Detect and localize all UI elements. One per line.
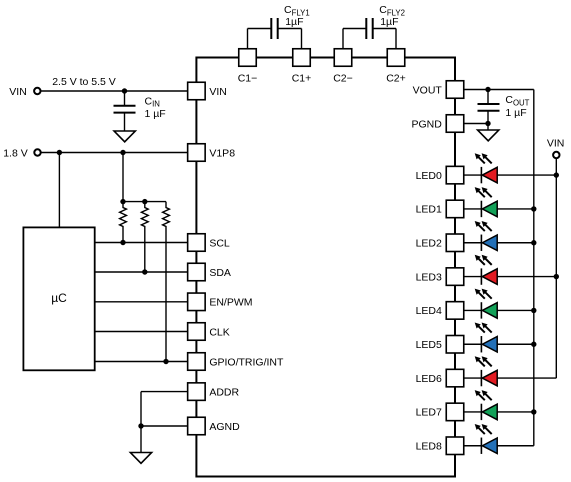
- svg-text:VIN: VIN: [9, 86, 27, 98]
- svg-text:VIN: VIN: [209, 86, 227, 98]
- svg-text:CLK: CLK: [209, 326, 229, 338]
- svg-text:C1+: C1+: [292, 73, 312, 85]
- svg-text:LED1: LED1: [416, 204, 442, 216]
- svg-text:SCL: SCL: [209, 237, 230, 249]
- svg-text:SDA: SDA: [209, 267, 231, 279]
- svg-text:GPIO/TRIG/INT: GPIO/TRIG/INT: [209, 356, 284, 368]
- svg-text:LED7: LED7: [416, 407, 442, 419]
- svg-text:C2−: C2−: [333, 73, 353, 85]
- svg-text:1µF: 1µF: [285, 16, 303, 28]
- svg-text:PGND: PGND: [412, 118, 443, 130]
- svg-text:AGND: AGND: [209, 421, 240, 433]
- svg-text:VIN: VIN: [547, 138, 565, 150]
- svg-text:2.5 V to 5.5 V: 2.5 V to 5.5 V: [52, 76, 116, 88]
- svg-text:LED4: LED4: [416, 305, 442, 317]
- svg-text:1µF: 1µF: [380, 16, 398, 28]
- svg-text:C1−: C1−: [238, 73, 258, 85]
- svg-text:1 µF: 1 µF: [505, 107, 526, 119]
- svg-text:LED2: LED2: [416, 238, 442, 250]
- svg-text:LED0: LED0: [416, 170, 442, 182]
- svg-text:µC: µC: [51, 291, 67, 305]
- svg-text:1.8 V: 1.8 V: [3, 147, 28, 159]
- svg-text:VOUT: VOUT: [413, 84, 443, 96]
- svg-text:LED8: LED8: [416, 441, 442, 453]
- svg-text:C2+: C2+: [386, 73, 406, 85]
- svg-text:ADDR: ADDR: [209, 386, 239, 398]
- svg-text:V1P8: V1P8: [209, 147, 235, 159]
- svg-text:1 µF: 1 µF: [145, 108, 166, 120]
- svg-text:EN/PWM: EN/PWM: [209, 297, 252, 309]
- svg-text:LED5: LED5: [416, 339, 442, 351]
- svg-text:LED3: LED3: [416, 271, 442, 283]
- svg-text:LED6: LED6: [416, 373, 442, 385]
